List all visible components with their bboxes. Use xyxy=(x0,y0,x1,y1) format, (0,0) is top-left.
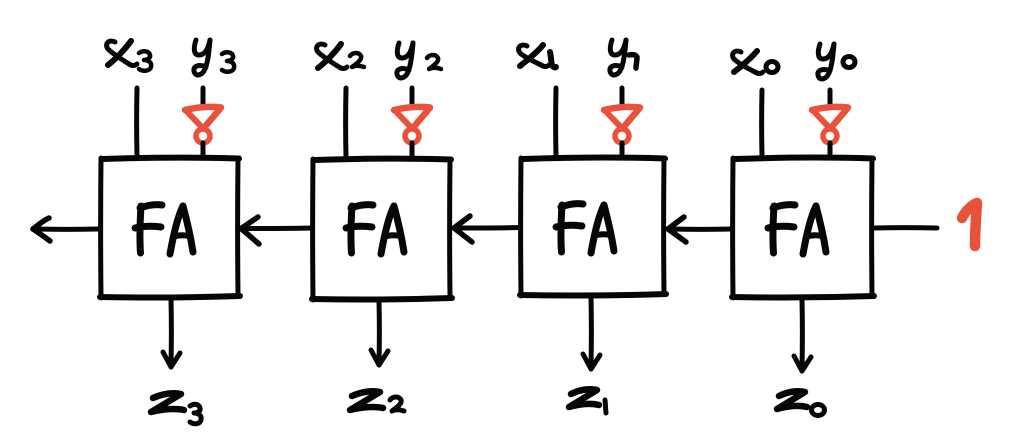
wire y1 lower segment xyxy=(620,143,625,156)
wire y2 upper segment xyxy=(410,88,415,106)
label z2 xyxy=(350,391,404,411)
inverter on y3 (red) xyxy=(185,107,221,143)
label y0 xyxy=(818,44,855,79)
label FA (FA1) xyxy=(556,204,614,253)
wire y0 lower segment xyxy=(828,143,833,156)
carry wire c3 (box2 to box1) with arrowhead xyxy=(241,217,312,244)
carry-in constant 1 (red) xyxy=(962,203,977,246)
carry wire c2 (box3 to box2) with arrowhead xyxy=(454,216,520,242)
label FA (FA2) xyxy=(346,205,404,254)
sum arrow z1 xyxy=(583,297,600,369)
wire y3 lower segment xyxy=(201,143,206,156)
wire y1 upper segment xyxy=(620,88,625,106)
label x2 xyxy=(317,44,364,69)
wire x0 input xyxy=(759,90,764,155)
carry-in wire (right side) xyxy=(874,225,937,230)
label y1 xyxy=(610,40,637,75)
label y2 xyxy=(397,43,441,78)
label z1 xyxy=(569,389,606,413)
label x1 xyxy=(519,45,556,67)
wire y2 lower segment xyxy=(410,143,415,157)
inverter on y1 (red) xyxy=(604,107,640,143)
wire x2 input xyxy=(343,88,348,157)
carry wire c1 (box4 to box3) with arrowhead xyxy=(668,217,732,242)
wire x3 input xyxy=(134,88,139,155)
full adder FA0 box xyxy=(732,158,874,298)
label FA (FA3) xyxy=(135,205,193,254)
full adder FA3 box xyxy=(100,158,240,298)
inverter on y2 (red) xyxy=(394,107,430,143)
sum arrow z0 xyxy=(794,299,811,371)
full adder FA2 box xyxy=(312,159,452,300)
sum arrow z2 xyxy=(371,301,388,365)
label y3 xyxy=(194,40,234,75)
label FA (FA0) xyxy=(768,205,826,254)
label z3 xyxy=(151,393,201,424)
label x3 xyxy=(107,41,152,71)
wire x1 input xyxy=(553,88,558,156)
sum arrow z3 xyxy=(163,299,180,367)
wire y0 upper segment xyxy=(828,90,833,106)
inverter on y0 (red) xyxy=(812,107,848,143)
carry-out arrow (leftmost) xyxy=(33,218,98,241)
label z0 xyxy=(777,391,825,415)
full adder FA1 box xyxy=(520,158,666,296)
label x0 xyxy=(733,51,778,74)
wire y3 upper segment xyxy=(201,88,206,106)
